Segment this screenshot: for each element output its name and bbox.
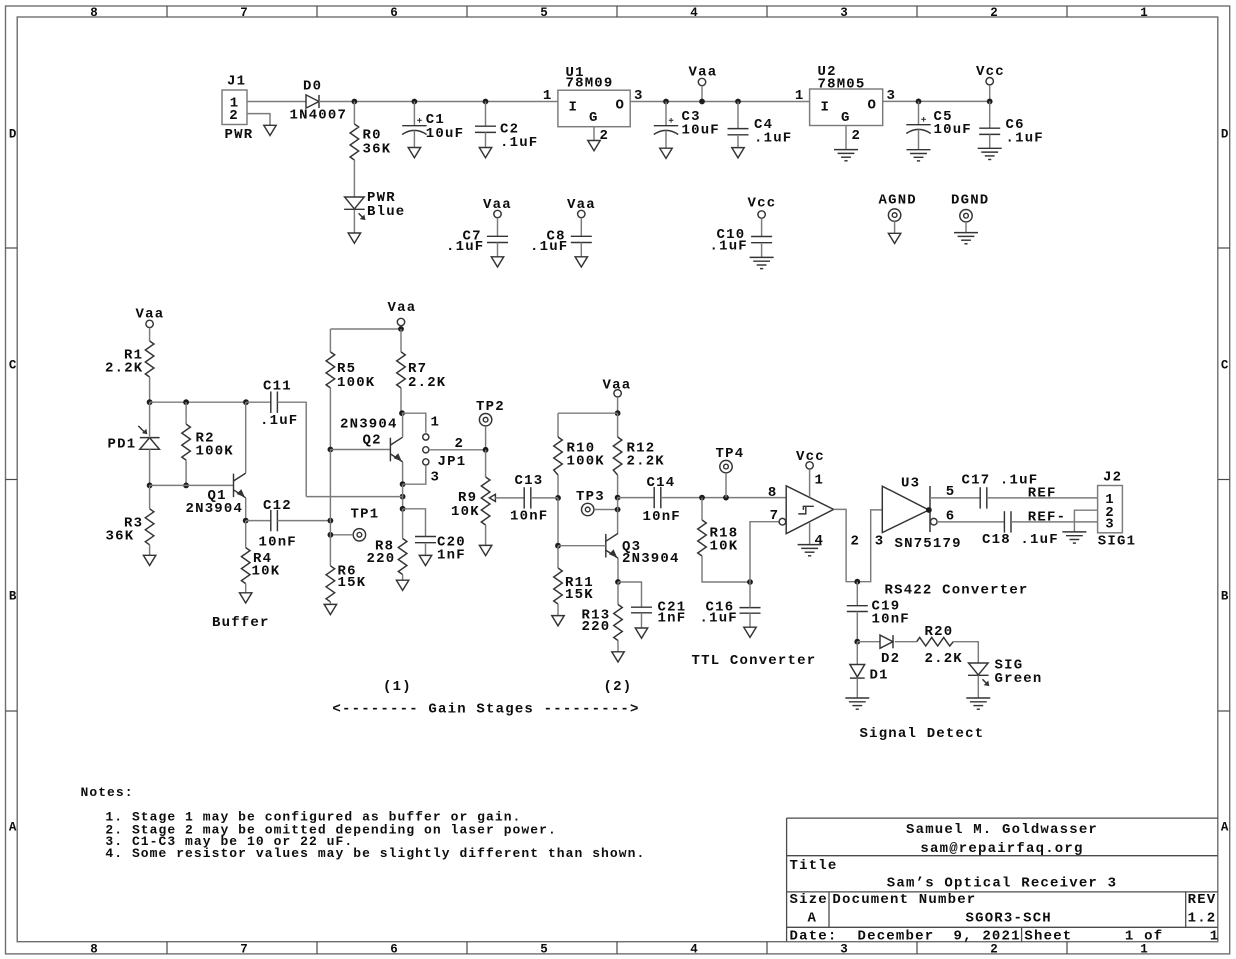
svg-text:Notes:: Notes: [81,785,134,800]
wire R11 top [557,546,559,568]
wire C3 to ground [665,131,667,149]
label pin2 [851,534,861,550]
svg-text:O: O [868,97,878,113]
wire comparator output [834,509,883,581]
svg-text:5: 5 [946,484,956,500]
svg-text:Document Number: Document Number [832,892,976,908]
wire C17 to J2 pin1 (REF) [987,486,1098,502]
ground (U2 pin2, earth) [834,150,858,161]
capacitor C21 1nF [631,599,686,626]
junction R0 tap [352,99,358,105]
svg-text:10nF: 10nF [510,509,548,525]
svg-text:R20: R20 [925,624,954,640]
wire emitter node down [402,484,404,509]
capacitor C11 .1uF [260,378,298,429]
wire C12 right to bias bus [277,520,330,522]
svg-text:A: A [808,911,818,927]
transistor Q1 2N3904 [186,473,246,517]
label (1) [383,679,412,695]
wire rail to C4 [737,102,739,129]
svg-text:2N3904: 2N3904 [340,417,398,433]
power symbol Vcc (rail) [976,64,1005,85]
svg-text:2: 2 [851,534,861,550]
svg-text:I: I [821,100,831,116]
wire Vaa to C8 [580,218,582,237]
wire J1 pin1 to D0 [247,101,306,103]
wire C2 to ground [485,132,487,147]
svg-text:Vaa: Vaa [689,65,718,81]
svg-text:(1): (1) [383,679,412,695]
LED PWR Blue [344,190,405,220]
wire R8 to ground [402,575,404,581]
svg-text:3: 3 [1105,516,1115,532]
wire C5 to ground [918,130,920,150]
svg-text:6: 6 [390,6,398,20]
svg-text:1: 1 [1140,942,1148,956]
power symbol Vaa (C8) [567,197,596,218]
svg-text:C17 .1uF: C17 .1uF [962,473,1039,489]
wire J2 pin2 to ground [1074,510,1097,532]
svg-text:15K: 15K [565,587,594,603]
junction Q2 emitter / JP1 pin3 [400,481,406,487]
svg-text:JP1: JP1 [438,454,467,470]
junction node B / PD1 anode [147,483,153,489]
svg-text:A: A [1221,820,1229,834]
svg-text:1: 1 [1140,6,1148,20]
svg-text:sam@repairfaq.org: sam@repairfaq.org [920,841,1083,857]
ground (SIG LED, earth) [966,698,990,709]
svg-text:Vaa: Vaa [603,377,632,393]
wire R11 to ground [557,604,559,616]
svg-text:1nF: 1nF [658,611,687,627]
svg-text:J1: J1 [227,74,246,90]
wire R3 to ground [149,545,151,556]
power symbol Vaa (C7) [483,197,512,218]
junction C6 tap [987,99,993,105]
wire C11 left [246,401,271,403]
wire D0 to U1 pin1 (+12V rail) [319,101,558,103]
resistor R8 220 [367,539,407,575]
ground (C6, earth) [978,148,1002,159]
svg-text:Vcc: Vcc [796,449,825,465]
wire C14 right to comparator pin8 [661,497,786,499]
svg-text:8: 8 [768,485,778,501]
junction C1 tap [412,99,418,105]
svg-text:4: 4 [690,942,698,956]
svg-text:3: 3 [840,942,848,956]
wire comparator pin4 to ground [809,522,811,545]
wire C10 to ground [761,243,763,258]
wire TP3 to collector node [594,509,618,511]
svg-text:TP1: TP1 [351,506,380,522]
ground (R8) [396,580,408,590]
svg-text:4: 4 [815,533,825,549]
junction C5 tap [916,99,922,105]
wire U1 pin3 to U2 pin1 (Vaa rail) [630,101,809,103]
svg-text:G: G [589,110,599,126]
wire C14 left [618,497,655,499]
svg-text:Vaa: Vaa [567,197,596,213]
wire C16 node up to pin7 [750,522,779,582]
svg-text:10uF: 10uF [934,122,972,138]
capacitor C6 .1uF [979,117,1044,147]
svg-text:RS422 Converter: RS422 Converter [885,583,1029,599]
svg-text:REF: REF [1028,486,1057,502]
test point TP4 [716,446,745,473]
junction C4 tap [735,99,741,105]
svg-text:.1uF: .1uF [500,135,538,151]
ground (C3) [660,148,672,158]
wire R10 top [557,413,559,437]
svg-text:TP2: TP2 [476,399,505,415]
svg-text:C11: C11 [263,378,292,394]
wire R0 to PWR LED [353,160,355,197]
svg-text:2.2K: 2.2K [925,651,963,667]
wire R9 to ground [485,525,487,545]
line driver U3 SN75179 [882,475,961,552]
wire R13 to ground [617,641,619,652]
wire LED to ground [353,210,355,233]
svg-text:2.2K: 2.2K [408,375,446,391]
svg-text:D0: D0 [303,79,322,95]
wire node B to Q1 base [150,484,234,486]
svg-text:J2: J2 [1103,470,1122,486]
wire U2 pin2 to ground [845,126,847,150]
junction C3 tap [663,99,669,105]
ground (R13) [612,652,624,662]
wire node to D2 [857,641,880,643]
svg-text:1 of: 1 of [1125,928,1163,944]
junction TP2 / R9 top [483,447,489,453]
svg-text:7: 7 [770,508,780,524]
svg-text:PWR: PWR [225,127,254,143]
LED SIG Green [968,658,1043,687]
svg-text:G: G [841,110,851,126]
svg-text:C12: C12 [263,498,292,514]
label RS422 Converter [885,583,1029,599]
wire R5 top [329,329,331,352]
diode D1 [850,665,889,684]
power symbol Vaa (rail) [689,65,718,86]
svg-text:December 9, 2021: December 9, 2021 [858,928,1021,944]
wire U2 pin3 to Vcc node [883,100,990,102]
svg-text:C: C [9,358,17,372]
junction R7 top [398,326,404,332]
svg-text:3: 3 [840,6,848,20]
capacitor C17 .1uF [962,473,1039,509]
svg-text:Vcc: Vcc [976,64,1005,80]
node DGND [951,193,989,244]
wire C13 node to Q3 base node [557,498,559,546]
wire C19 top [856,582,858,606]
svg-text:220: 220 [367,551,396,567]
svg-text:.1uF: .1uF [1006,131,1044,147]
ground (R9) [479,545,491,555]
wire C16 to ground [749,613,751,627]
wire C11 right then down to stage1 output bus [277,402,306,496]
svg-text:1: 1 [543,88,553,104]
wire C1 to ground [413,131,415,148]
title block text [790,822,1220,944]
svg-text:Date:: Date: [790,928,838,944]
power symbol Vaa (stage1 input) [136,307,165,328]
junction Q1 emitter / C12 / R4 [243,518,249,524]
svg-text:78M09: 78M09 [566,76,614,92]
regulator U1 78M09 [543,65,644,144]
power symbol Vcc (comparator) [796,449,825,469]
ground (PWR LED) [348,233,360,243]
svg-text:Sheet: Sheet [1024,928,1072,944]
connector J2 SIG1 [1098,470,1137,550]
svg-text:Buffer: Buffer [212,615,270,631]
svg-text:1N4007: 1N4007 [290,107,348,123]
resistor R20 2.2K [917,624,963,667]
svg-text:.1uF: .1uF [530,239,568,255]
svg-text:2.2K: 2.2K [627,454,665,470]
junction C12 node [328,518,334,524]
resistor R0 36K [350,124,391,160]
wire R12 to signal node [617,475,619,498]
svg-text:10nF: 10nF [872,612,910,628]
svg-text:SGOR3-SCH: SGOR3-SCH [966,911,1052,927]
svg-text:2: 2 [852,128,862,144]
svg-text:10nF: 10nF [259,535,297,551]
wire R18 top [701,498,703,520]
wire Vaa to C7 [497,218,499,237]
svg-text:2: 2 [990,6,998,20]
wire rail to C1 [413,102,415,126]
resistor R10 100K [554,437,605,475]
wire R13 top [617,582,619,605]
wire R7 to Q2 collector node [400,388,402,413]
svg-text:Samuel M. Goldwasser: Samuel M. Goldwasser [906,822,1098,838]
svg-text:O: O [616,97,626,113]
capacitor C3 10uF (polarized) [654,109,720,138]
wire bias bus down [329,450,331,566]
test point TP2 [476,399,505,426]
label pin3 [875,534,885,550]
svg-text:2N3904: 2N3904 [622,551,680,567]
wire collector node down [617,498,619,534]
label (2) [604,679,633,695]
ground (C16) [744,627,756,637]
svg-text:AGND: AGND [879,193,917,209]
wire node to C20 [403,509,426,537]
svg-text:10nF: 10nF [643,509,681,525]
svg-text:Green: Green [995,671,1043,687]
svg-text:I: I [569,100,579,116]
wire Q3 base [558,545,606,547]
junction Q3 emitter / R13 / C21 [615,579,621,585]
wire C6 to ground [989,134,991,148]
junction C2 tap [483,99,489,105]
wire Q1 collector to node A [245,402,247,473]
svg-text:Vaa: Vaa [136,307,165,323]
ground (R6) [324,604,336,614]
svg-text:D: D [9,127,17,141]
svg-text:4: 4 [690,6,698,20]
junction TP3 node [615,507,621,513]
capacitor C8 .1uF [530,229,592,255]
wire node B to R3 [149,485,151,508]
wire R9 top [485,450,487,477]
junction Q3 base node [555,543,561,549]
junction R2 top [183,399,189,405]
wire Q1 emitter down [245,498,247,521]
ground (C21) [635,628,647,638]
wire Vaa down [617,397,619,413]
svg-text:REF-: REF- [1028,510,1066,526]
capacitor C19 10nF [847,599,910,628]
wire R1 to node A [149,377,151,402]
wire C20 to ground [425,543,427,556]
diode D0 1N4007 [290,79,348,124]
wire node A to PD1 [149,402,151,437]
notes text [81,785,646,861]
wire rail to C3 [665,102,667,126]
capacitor C14 10nF [643,475,681,525]
resistor R11 15K [554,568,594,604]
wire R5 to Q2 base node [329,388,331,450]
wire C21 to ground [641,613,643,628]
svg-text:D1: D1 [870,668,889,684]
svg-text:4. Some resistor values may be: 4. Some resistor values may be slightly … [105,846,645,861]
wire JP1 pin2 to TP2 node [429,449,486,451]
svg-text:Vaa: Vaa [388,300,417,316]
svg-text:100K: 100K [337,375,375,391]
junction TP1 node [328,532,334,538]
capacitor C1 10uF (polarized) [402,112,464,142]
svg-text:10uF: 10uF [682,122,720,138]
wire node to JP1 pin1 [402,413,426,433]
svg-text:PD1: PD1 [108,437,137,453]
svg-text:Title: Title [790,858,838,874]
wire rail to R0 [353,102,355,125]
junction Vaa tap [699,99,705,105]
wire C13 right to R10 node [531,497,558,499]
svg-text:REV: REV [1188,892,1217,908]
svg-text:7: 7 [240,942,248,956]
wire R8 top [402,509,404,539]
wire C12 left [246,520,271,522]
power symbol Vcc (C10) [748,196,777,219]
wire C7 to ground [497,243,499,257]
ground (R11) [552,616,564,626]
svg-text:.1uF: .1uF [446,239,484,255]
wire C18 to J2 pin3 (REF-) [1011,510,1098,526]
svg-text:1nF: 1nF [437,548,466,564]
connector J1 (PWR input) [222,74,253,143]
wire J1 pin2 to ground [247,114,270,126]
svg-text:2.2K: 2.2K [105,361,143,377]
resistor R1 2.2K [105,341,154,377]
node AGND [879,193,917,244]
svg-text:8: 8 [90,942,98,956]
wire D2 to R20 [895,641,917,643]
svg-text:Sam’s Optical Receiver 3: Sam’s Optical Receiver 3 [887,876,1117,892]
wire Q3 emitter down [617,558,619,582]
jumper JP1 [423,415,467,486]
ground (C7) [491,257,503,267]
wire Vcc to rail [989,85,991,102]
wire Vaa to R1 [149,328,151,341]
wire TP2 down [485,426,487,450]
regulator U2 78M05 [795,64,896,144]
wire R4 top [245,521,247,548]
ground (C1) [408,148,420,158]
wire stage1 output bus to R8 node [306,496,402,498]
wire Vaa down to rail node [400,326,402,329]
wire R18 bottom L to C16 node [702,556,750,582]
resistor R6 15K [326,564,366,602]
capacitor C2 .1uF [475,121,538,151]
wire R20 to SIG LED [953,642,978,663]
svg-text:<-------- Gain Stages --------: <-------- Gain Stages ---------> [332,702,639,718]
svg-text:2N3904: 2N3904 [186,501,244,517]
svg-text:.1uF: .1uF [700,611,738,627]
junction R18 tap [699,495,705,501]
wire C4 to ground [737,135,739,148]
wire U3 pin6 to C18 [937,521,1004,523]
junction stage1 out / R8 bus upper [400,494,406,500]
svg-text:1: 1 [1210,928,1220,944]
wire R2 to node B [185,460,187,485]
wire Vcc to C10 [761,218,763,236]
wire emitter node to C21 [618,582,642,607]
power symbol Vaa (stage2) [603,377,632,397]
wire Q2 collector to node [402,413,404,437]
svg-text:D: D [1221,127,1229,141]
svg-text:78M05: 78M05 [818,76,866,92]
svg-text:10K: 10K [451,504,480,520]
wire R10 to C13 node [557,475,559,498]
wire C16 top [749,582,751,608]
svg-text:2: 2 [229,108,239,124]
wire Q2 base [330,449,390,451]
svg-text:3: 3 [875,534,885,550]
capacitor C16 .1uF [700,599,761,626]
wire Vcc to comparator pin1 [809,469,811,497]
ground (C10, earth) [750,257,774,268]
svg-text:SIG1: SIG1 [1098,534,1136,550]
svg-text:Q2: Q2 [363,433,382,449]
wire Q2 emitter down [402,462,404,484]
junction Q2 base node [328,447,334,453]
svg-text:6: 6 [946,509,956,525]
resistor R2 100K [182,424,234,460]
ground (R4) [240,593,252,603]
svg-text:36K: 36K [106,529,135,545]
junction C19 tap [854,579,860,585]
resistor R5 100K [326,352,375,391]
svg-text:5: 5 [540,942,548,956]
resistor R4 10K [241,548,280,584]
svg-text:Signal Detect: Signal Detect [860,726,985,742]
label TTL Converter [692,653,817,669]
resistor R13 220 [582,605,623,641]
svg-text:.1uF: .1uF [754,131,792,147]
comparator U4 (TTL converter) [768,472,834,548]
junction R2 bottom [183,483,189,489]
svg-text:8: 8 [90,6,98,20]
junction C16 / pin7 node [747,579,753,585]
diode D2 [880,635,900,667]
junction R8 / C20 node [400,506,406,512]
resistor R18 10K [698,520,739,556]
svg-text:TP4: TP4 [716,446,745,462]
label gain stages arrow [332,702,639,718]
svg-text:5: 5 [540,6,548,20]
